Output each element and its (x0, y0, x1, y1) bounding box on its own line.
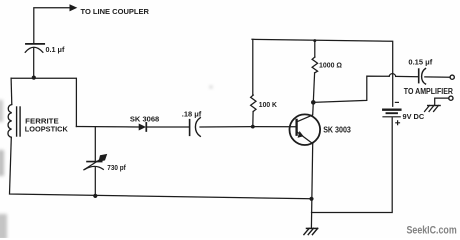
svg-text:TO AMPLIFIER: TO AMPLIFIER (404, 87, 453, 96)
svg-text:LOOPSTICK: LOOPSTICK (25, 125, 69, 134)
svg-text:9V DC: 9V DC (403, 112, 425, 121)
svg-text:SK 3003: SK 3003 (323, 125, 351, 134)
svg-text:1000 Ω: 1000 Ω (319, 60, 342, 69)
svg-text:TO LINE COUPLER: TO LINE COUPLER (81, 7, 150, 16)
svg-text:0.1 μf: 0.1 μf (46, 47, 66, 54)
svg-text:730 pf: 730 pf (107, 165, 126, 172)
svg-text:.18 μf: .18 μf (182, 110, 202, 119)
svg-text:100 K: 100 K (259, 100, 278, 109)
svg-text:SK 3068: SK 3068 (130, 115, 159, 124)
svg-text:0.15 μf: 0.15 μf (408, 57, 432, 66)
svg-text:SeekIC.com: SeekIC.com (407, 225, 457, 237)
